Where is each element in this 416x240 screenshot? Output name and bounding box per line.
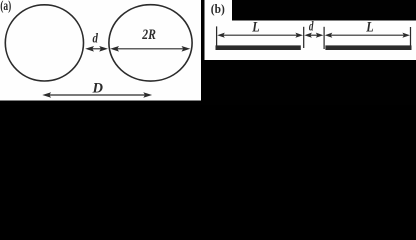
rod 1 [216, 45, 301, 50]
svg-text:L: L [365, 20, 373, 36]
dimension arrow D (center-to-center) [42, 92, 152, 98]
svg-text:D: D [92, 80, 104, 96]
dimension arrow L (rod 2) [325, 33, 410, 38]
svg-text:(b): (b) [211, 2, 225, 16]
svg-text:d: d [309, 20, 314, 35]
svg-text:d: d [93, 32, 99, 47]
tick 3 (left end of rod 2 dimension) [323, 27, 325, 49]
sphere circle 1 [5, 5, 83, 81]
tick 2 (right end of rod 1 dimension) [303, 27, 305, 48]
white panel B label patch [205, 0, 233, 21]
dimension arrow d (gap between rods) [304, 33, 323, 38]
tick 1 (left end of rod 1 dimension) [216, 26, 218, 46]
white panel B (figure b background) [205, 21, 416, 61]
dimension arrow 2R (diameter of circle 2) [110, 46, 190, 52]
svg-text:L: L [251, 20, 259, 36]
sphere circle 2 [109, 5, 192, 81]
rod 2 [325, 45, 411, 50]
svg-text:(a): (a) [0, 0, 11, 13]
svg-text:2R: 2R [142, 27, 156, 43]
tick 4 (right end of rod 2 dimension) [410, 27, 412, 47]
dimension arrow L (rod 1) [217, 33, 303, 38]
white panel A (figure a background) [0, 0, 201, 101]
dimension arrow d (gap between circles) [85, 46, 108, 52]
